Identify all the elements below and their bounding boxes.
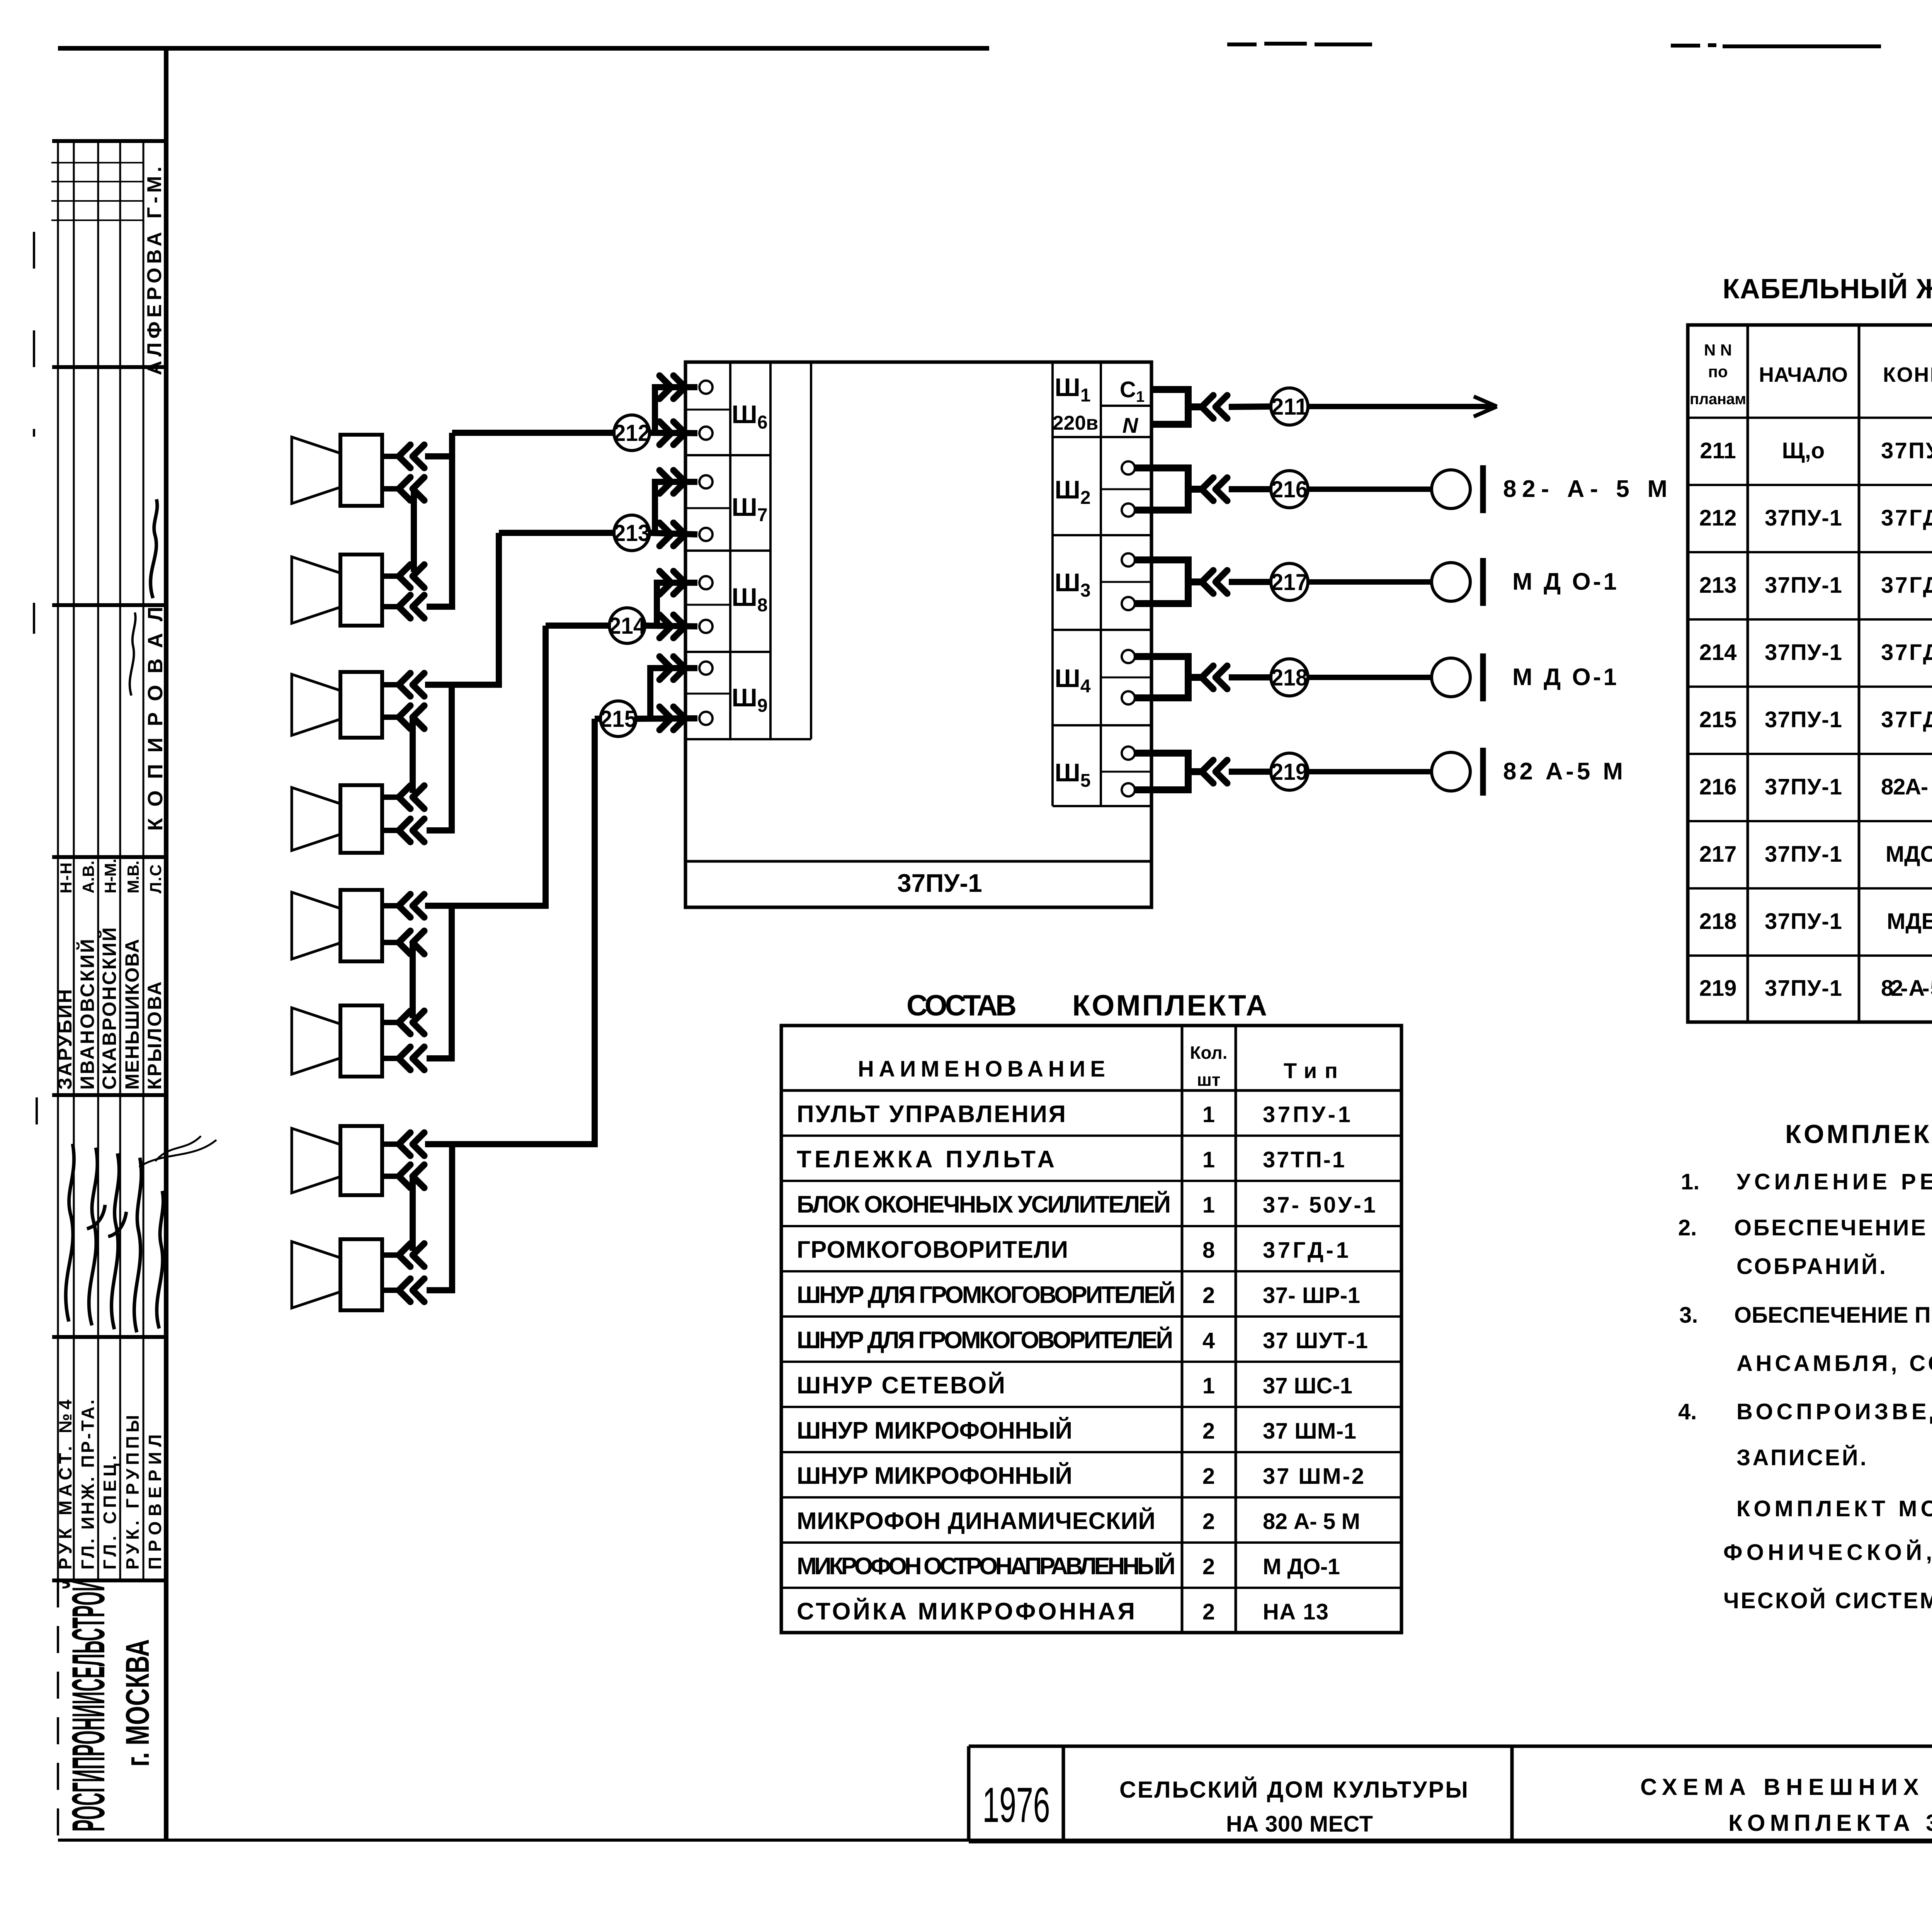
svg-text:214: 214 xyxy=(1699,640,1737,665)
svg-text:Л.С: Л.С xyxy=(146,864,165,893)
svg-text:218: 218 xyxy=(1271,665,1308,691)
svg-text:КОМПЛЕКТ 37 КЗТП-2 ОБЕСПЕЧИВ: КОМПЛЕКТ 37 КЗТП-2 ОБЕСПЕЧИВАЕТ: xyxy=(1785,1119,1932,1149)
svg-text:Щ,о: Щ,о xyxy=(1782,438,1825,463)
svg-text:213: 213 xyxy=(1699,573,1737,598)
svg-text:ТЕЛЕЖКА ПУЛЬТА: ТЕЛЕЖКА ПУЛЬТА xyxy=(797,1146,1054,1173)
svg-text:82 А- 5 М: 82 А- 5 М xyxy=(1263,1509,1360,1534)
svg-text:АЛФЕРОВА Г-М.: АЛФЕРОВА Г-М. xyxy=(143,167,166,375)
svg-text:2: 2 xyxy=(1202,1283,1215,1308)
svg-text:М.В.: М.В. xyxy=(124,861,142,893)
svg-text:ИВАНОВСКИЙ: ИВАНОВСКИЙ xyxy=(76,939,98,1090)
svg-text:37ПУ-1: 37ПУ-1 xyxy=(1765,909,1842,934)
svg-text:ВОСПРОИЗВЕДЕНИЕ ГРАМОФОННЫХ: ВОСПРОИЗВЕДЕНИЕ ГРАМОФОННЫХ И МАГНИТОФОН… xyxy=(1736,1399,1932,1424)
svg-text:СКАВРОНСКИЙ: СКАВРОНСКИЙ xyxy=(98,927,120,1090)
svg-text:219: 219 xyxy=(1271,759,1308,785)
svg-text:ПУЛЬТ УПРАВЛЕНИЯ: ПУЛЬТ УПРАВЛЕНИЯ xyxy=(797,1101,1066,1128)
svg-text:4.: 4. xyxy=(1678,1399,1697,1424)
svg-text:37ТП-1: 37ТП-1 xyxy=(1263,1147,1345,1172)
svg-text:РОСГИПРОНИИСЕЛЬСТРОЙ: РОСГИПРОНИИСЕЛЬСТРОЙ xyxy=(62,1579,114,1832)
svg-text:МИКРОФОН ОСТРОНАПРАВЛЕННЫЙ: МИКРОФОН ОСТРОНАПРАВЛЕННЫЙ xyxy=(797,1553,1175,1580)
svg-text:ШНУР СЕТЕВОЙ: ШНУР СЕТЕВОЙ xyxy=(797,1372,1005,1399)
svg-text:А.В.: А.В. xyxy=(79,861,97,893)
svg-text:37ПУ-1: 37ПУ-1 xyxy=(1765,505,1842,531)
svg-text:37ГД-1: 37ГД-1 xyxy=(1881,640,1932,665)
svg-text:АНСАМБЛЯ, СОЛИСТОВ, ТЕАТРАЛЬ: АНСАМБЛЯ, СОЛИСТОВ, ТЕАТРАЛЬНОГО КОЛЛЕКТ… xyxy=(1736,1351,1932,1376)
svg-text:ШНУР ДЛЯ ГРОМКОГОВОРИТЕЛЕЙ: ШНУР ДЛЯ ГРОМКОГОВОРИТЕЛЕЙ xyxy=(797,1281,1175,1308)
svg-text:ЗАПИСЕЙ.: ЗАПИСЕЙ. xyxy=(1736,1445,1866,1470)
svg-text:ШНУР ДЛЯ ГРОМКОГОВОРИТЕЛЕЙ: ШНУР ДЛЯ ГРОМКОГОВОРИТЕЛЕЙ xyxy=(797,1327,1173,1354)
svg-text:ШНУР МИКРОФОННЫЙ: ШНУР МИКРОФОННЫЙ xyxy=(797,1417,1072,1444)
svg-text:ГЛ. СПЕЦ.: ГЛ. СПЕЦ. xyxy=(100,1455,120,1570)
svg-text:1: 1 xyxy=(1202,1147,1215,1172)
svg-text:37ПУ-1: 37ПУ-1 xyxy=(1765,976,1842,1001)
svg-text:ФОНИЧЕСКОЙ, ТАК И ПО ДВУХКА: ФОНИЧЕСКОЙ, ТАК И ПО ДВУХКАНАЛЬНОЙ СТЕРЕ… xyxy=(1723,1540,1932,1565)
svg-text:212: 212 xyxy=(614,420,650,446)
svg-text:КОМПЛЕКТА: КОМПЛЕКТА xyxy=(1072,989,1267,1022)
svg-text:37ПУ-1: 37ПУ-1 xyxy=(1765,707,1842,732)
svg-text:1.: 1. xyxy=(1681,1169,1699,1194)
svg-text:ГРОМКОГОВОРИТЕЛИ: ГРОМКОГОВОРИТЕЛИ xyxy=(797,1237,1068,1263)
svg-text:37ПУ-1: 37ПУ-1 xyxy=(1765,640,1842,665)
svg-text:Кол.: Кол. xyxy=(1190,1043,1227,1063)
svg-text:219: 219 xyxy=(1699,976,1737,1001)
svg-text:КОПИРОВАЛ: КОПИРОВАЛ xyxy=(144,607,167,831)
svg-text:37- 50У-1: 37- 50У-1 xyxy=(1263,1192,1376,1218)
svg-text:НАЧАЛО: НАЧАЛО xyxy=(1759,363,1848,386)
svg-text:215: 215 xyxy=(1699,707,1737,732)
svg-text:СХЕМА ВНЕШНИХ СОЕДИНЕНИЙ: СХЕМА ВНЕШНИХ СОЕДИНЕНИЙ xyxy=(1640,1774,1932,1800)
svg-text:УСИЛЕНИЕ РЕЧЕЙ ОРАТОРОВ.: УСИЛЕНИЕ РЕЧЕЙ ОРАТОРОВ. xyxy=(1736,1169,1932,1194)
svg-text:212: 212 xyxy=(1699,505,1737,531)
svg-text:2: 2 xyxy=(1202,1509,1215,1534)
svg-text:37 ШМ-2: 37 ШМ-2 xyxy=(1263,1464,1364,1489)
svg-text:ЧЕСКОЙ СИСТЕМЕ.: ЧЕСКОЙ СИСТЕМЕ. xyxy=(1723,1588,1932,1613)
svg-text:37ГД-1: 37ГД-1 xyxy=(1881,707,1932,732)
svg-text:НА 13: НА 13 xyxy=(1263,1599,1328,1624)
svg-text:82- А- 5 М: 82- А- 5 М xyxy=(1881,976,1932,1001)
svg-text:215: 215 xyxy=(600,706,637,732)
svg-text:1: 1 xyxy=(1202,1373,1215,1398)
svg-text:217: 217 xyxy=(1271,569,1308,595)
svg-text:220в: 220в xyxy=(1053,412,1099,434)
svg-text:РУК МАСТ. №4: РУК МАСТ. №4 xyxy=(55,1400,75,1570)
svg-text:8: 8 xyxy=(1202,1238,1215,1263)
svg-text:СЕЛЬСКИЙ ДОМ КУЛЬТУРЫ: СЕЛЬСКИЙ ДОМ КУЛЬТУРЫ xyxy=(1119,1777,1468,1803)
svg-text:1: 1 xyxy=(1202,1102,1215,1127)
svg-text:211: 211 xyxy=(1700,438,1736,463)
svg-text:г. МОСКВА: г. МОСКВА xyxy=(119,1639,156,1767)
svg-text:214: 214 xyxy=(609,613,646,639)
svg-text:Тип: Тип xyxy=(1284,1058,1338,1083)
svg-text:Н-Н: Н-Н xyxy=(57,862,75,893)
svg-text:планам: планам xyxy=(1690,391,1746,408)
svg-text:37 ШС-1: 37 ШС-1 xyxy=(1263,1373,1352,1398)
svg-text:КАБЕЛЬНЫЙ ЖУРНАЛ ЭЛЕКТРОАКУС: КАБЕЛЬНЫЙ ЖУРНАЛ ЭЛЕКТРОАКУСТИЧЕСКОЙ СЕТ… xyxy=(1723,273,1932,304)
svg-text:МИКРОФОН ДИНАМИЧЕСКИЙ: МИКРОФОН ДИНАМИЧЕСКИЙ xyxy=(797,1507,1155,1534)
svg-text:2: 2 xyxy=(1202,1464,1215,1489)
svg-text:N: N xyxy=(1122,413,1139,437)
svg-text:МДО-1: МДО-1 xyxy=(1886,842,1932,867)
svg-text:СОСТАВ: СОСТАВ xyxy=(906,989,1017,1022)
svg-text:3.: 3. xyxy=(1679,1303,1698,1328)
svg-text:по: по xyxy=(1708,362,1728,381)
svg-text:1976: 1976 xyxy=(983,1778,1050,1833)
svg-text:2: 2 xyxy=(1202,1554,1215,1579)
svg-text:37 ШМ-1: 37 ШМ-1 xyxy=(1263,1419,1356,1444)
svg-text:МДЕ-1: МДЕ-1 xyxy=(1887,909,1932,934)
svg-text:37ПУ-1: 37ПУ-1 xyxy=(897,869,982,897)
svg-text:ШНУР МИКРОФОННЫЙ: ШНУР МИКРОФОННЫЙ xyxy=(797,1462,1072,1489)
svg-text:2.: 2. xyxy=(1678,1215,1697,1240)
svg-text:НА 300 МЕСТ: НА 300 МЕСТ xyxy=(1226,1812,1373,1837)
svg-text:37ПУ-1: 37ПУ-1 xyxy=(1765,842,1842,867)
svg-text:37ГД-1: 37ГД-1 xyxy=(1881,573,1932,598)
svg-text:211: 211 xyxy=(1271,394,1308,420)
svg-text:216: 216 xyxy=(1271,476,1308,502)
svg-text:МЕНЬШИКОВА: МЕНЬШИКОВА xyxy=(121,939,143,1090)
svg-text:37ПУ-1: 37ПУ-1 xyxy=(1765,774,1842,799)
svg-text:М ДО-1: М ДО-1 xyxy=(1263,1554,1340,1579)
svg-text:1: 1 xyxy=(1202,1192,1215,1218)
svg-text:Н-М.: Н-М. xyxy=(101,859,119,893)
svg-text:37 ШУТ-1: 37 ШУТ-1 xyxy=(1263,1328,1368,1353)
svg-text:N N: N N xyxy=(1704,341,1732,359)
svg-text:БЛОК ОКОНЕЧНЫХ УСИЛИТЕЛЕЙ: БЛОК ОКОНЕЧНЫХ УСИЛИТЕЛЕЙ xyxy=(797,1191,1171,1218)
svg-text:216: 216 xyxy=(1699,774,1737,799)
svg-text:218: 218 xyxy=(1699,909,1737,934)
svg-text:37ПУ-1: 37ПУ-1 xyxy=(1765,573,1842,598)
svg-text:СОБРАНИЙ.: СОБРАНИЙ. xyxy=(1736,1254,1886,1279)
svg-text:СТОЙКА МИКРОФОННАЯ: СТОЙКА МИКРОФОННАЯ xyxy=(797,1598,1135,1625)
svg-text:37- ШР-1: 37- ШР-1 xyxy=(1263,1283,1360,1308)
svg-text:37ПУ-1: 37ПУ-1 xyxy=(1881,438,1932,463)
svg-text:4: 4 xyxy=(1202,1328,1215,1353)
svg-text:213: 213 xyxy=(614,520,650,546)
svg-text:КОНЕЦ: КОНЕЦ xyxy=(1883,363,1932,386)
svg-text:ОБЕСПЕЧЕНИЕ ПРЯМОГО УСИЛЕНИЯ: ОБЕСПЕЧЕНИЕ ПРЯМОГО УСИЛЕНИЯ ПРИ ВЫСТУПЛ… xyxy=(1734,1303,1932,1328)
svg-text:217: 217 xyxy=(1699,842,1737,867)
svg-text:37ГД-1: 37ГД-1 xyxy=(1881,505,1932,531)
svg-text:РУК. ГРУППЫ: РУК. ГРУППЫ xyxy=(122,1415,143,1570)
svg-text:КРЫЛОВА: КРЫЛОВА xyxy=(144,981,165,1090)
svg-text:шт: шт xyxy=(1197,1070,1221,1090)
svg-text:2: 2 xyxy=(1202,1419,1215,1444)
svg-text:КОМПЛЕКТА 37КЗТП-2: КОМПЛЕКТА 37КЗТП-2 xyxy=(1728,1810,1932,1836)
svg-text:82А- 5м: 82А- 5м xyxy=(1881,774,1932,799)
svg-text:ОБЕСПЕЧЕНИЕ МУЗЫКАЛЬНЫМИ ПРО: ОБЕСПЕЧЕНИЕ МУЗЫКАЛЬНЫМИ ПРОГРАММАМИ. ПР… xyxy=(1734,1215,1932,1240)
svg-text:2: 2 xyxy=(1202,1599,1215,1624)
